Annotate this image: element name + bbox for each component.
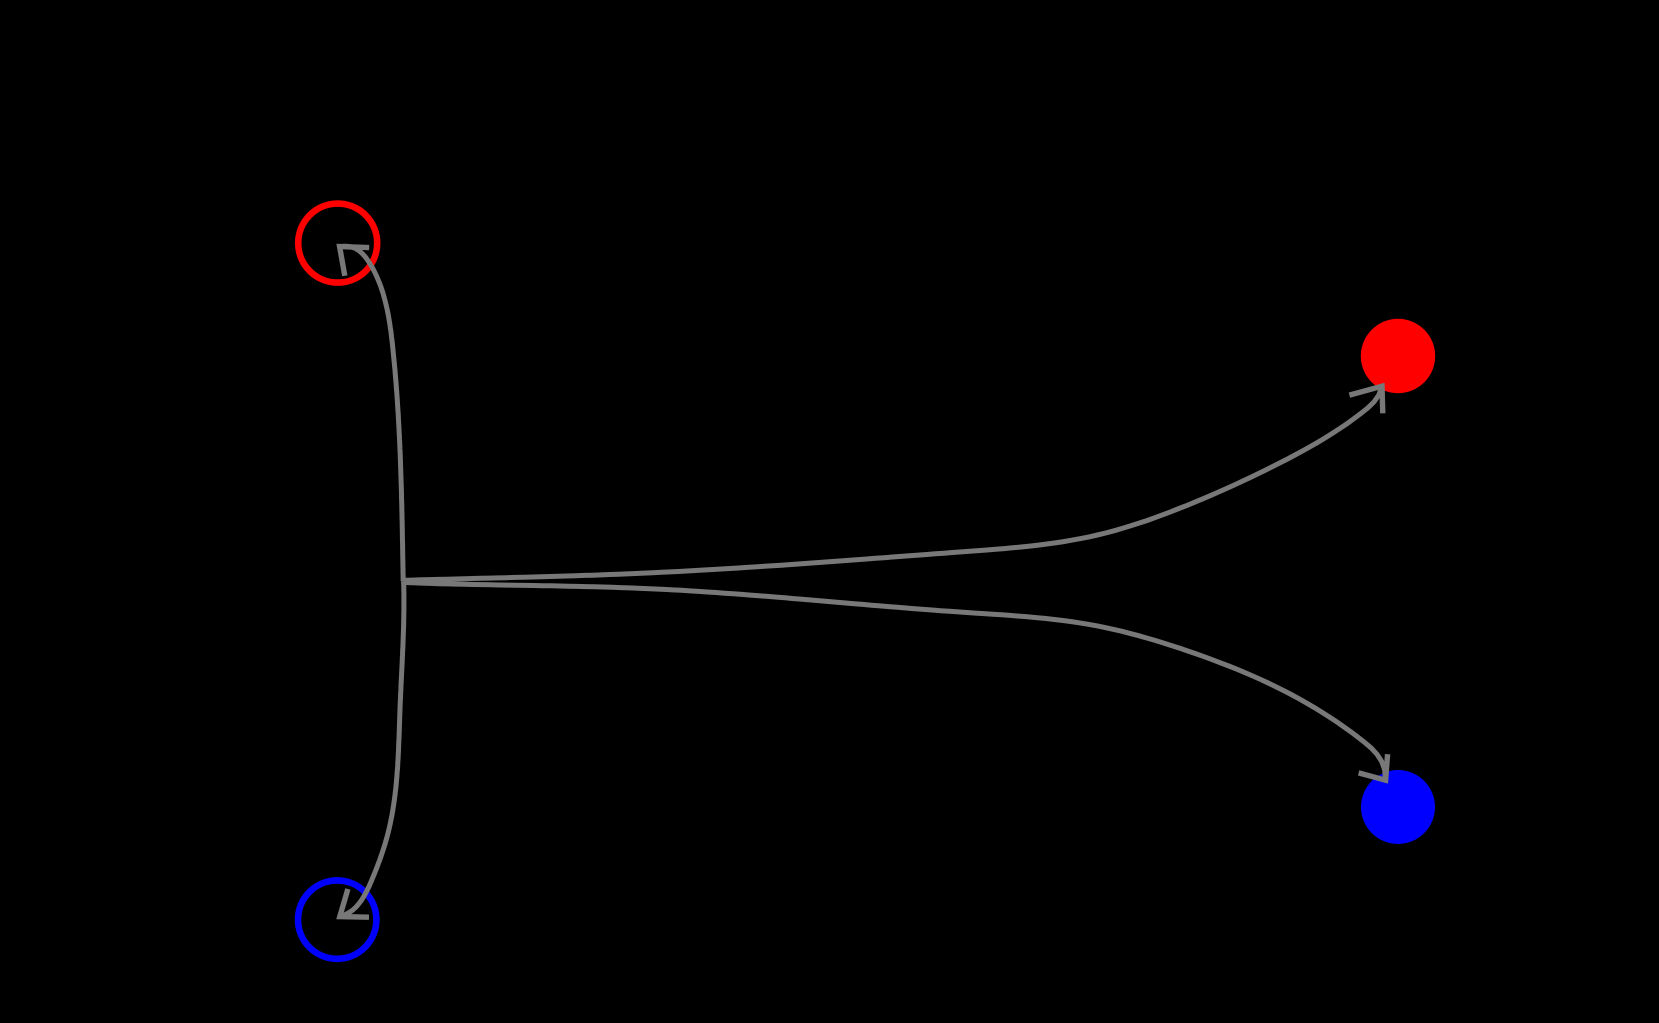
node: filled blue circle (right) xyxy=(1361,770,1435,844)
wire: arrow shaft right-down to filled blue circle xyxy=(404,583,1386,781)
arrowhead at filled blue circle xyxy=(1359,754,1388,780)
wire: arrow shaft up to open red circle xyxy=(340,246,403,581)
wire: arrow shaft right-up to filled red circle xyxy=(404,386,1382,580)
arrowhead at filled red circle xyxy=(1349,386,1382,413)
node: filled red circle (right) xyxy=(1361,319,1435,393)
node: open blue circle (bottom-left) xyxy=(298,880,376,958)
wire: arrow shaft down to open blue circle xyxy=(340,581,404,916)
arrowhead at open blue circle xyxy=(340,889,369,917)
arrowhead at open red circle xyxy=(340,247,370,276)
node: open red circle (top-left) xyxy=(298,204,377,283)
